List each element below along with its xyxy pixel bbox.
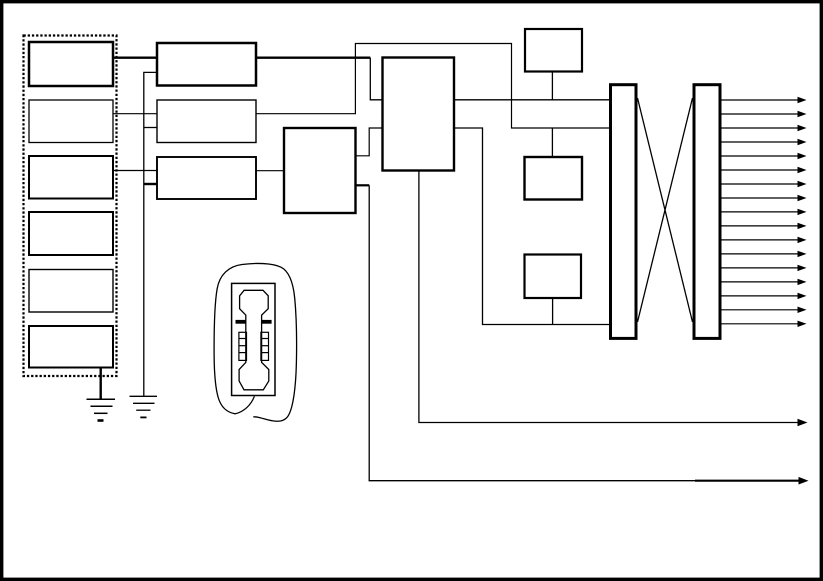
wire E to plane 1 lower bbox=[454, 128, 611, 325]
block D bbox=[284, 128, 356, 213]
arrowheads of output lines bbox=[798, 97, 807, 327]
wire S3 drop bbox=[552, 298, 554, 325]
wire B6 to ground bbox=[99, 368, 101, 400]
block B4 bbox=[29, 212, 113, 255]
wire D to E bbox=[356, 128, 383, 156]
cross link diagonal 1 bbox=[638, 98, 693, 322]
phone ladder left bbox=[239, 332, 247, 360]
block B5 bbox=[29, 270, 113, 313]
wire E bottom to mid output bbox=[419, 171, 799, 423]
wire MC to D bbox=[256, 170, 284, 172]
phone bar left bbox=[236, 320, 246, 324]
phone ladder right bbox=[261, 332, 269, 360]
block MB bbox=[157, 100, 256, 143]
wire stub D lower output bbox=[356, 184, 370, 186]
wire S2 riser bbox=[551, 128, 553, 157]
arrowhead mid output bbox=[798, 419, 808, 426]
block B3 bbox=[29, 156, 113, 199]
block E bbox=[383, 58, 455, 171]
ground G2 bbox=[130, 396, 158, 417]
wire stub bus to MC bbox=[144, 183, 157, 185]
phone bar right bbox=[261, 320, 271, 324]
phone inner rect bbox=[232, 283, 275, 395]
wire MB over top to plane 1 bbox=[256, 44, 611, 129]
wire B2 to MB bbox=[113, 113, 157, 115]
block MC bbox=[157, 157, 256, 199]
wire bbox=[370, 58, 382, 100]
wire B3 to MC bbox=[113, 170, 157, 172]
wire D down to bottom output bbox=[369, 185, 799, 480]
block B1 bbox=[29, 42, 113, 86]
output arrows from plane 2 bbox=[720, 100, 799, 324]
wire E to plane 1 upper bbox=[454, 99, 611, 101]
wire S1 drop bbox=[551, 72, 553, 100]
cross link diagonal 2 bbox=[638, 98, 693, 322]
switch matrix plane 1 bbox=[611, 85, 637, 339]
block B2 bbox=[29, 100, 113, 143]
block B6 bbox=[29, 326, 113, 368]
block S2 bbox=[525, 157, 583, 200]
wire bus vertical to ground bbox=[144, 72, 157, 396]
wire B1 to MA bbox=[113, 57, 157, 59]
wire MA to E bbox=[256, 57, 370, 59]
wire stub bus to MB bbox=[144, 127, 157, 129]
phone clipart outer blob bbox=[214, 263, 296, 421]
block S1 bbox=[525, 29, 582, 72]
arrowhead bottom output bbox=[799, 477, 809, 485]
phone handset outline bbox=[239, 290, 269, 390]
ground G1 bbox=[87, 399, 116, 420]
switch matrix plane 2 bbox=[694, 85, 720, 339]
block S3 bbox=[525, 255, 582, 299]
block MA bbox=[157, 43, 256, 86]
wire bold tail of bottom output bbox=[695, 480, 800, 482]
dotted group rectangle bbox=[24, 36, 117, 377]
